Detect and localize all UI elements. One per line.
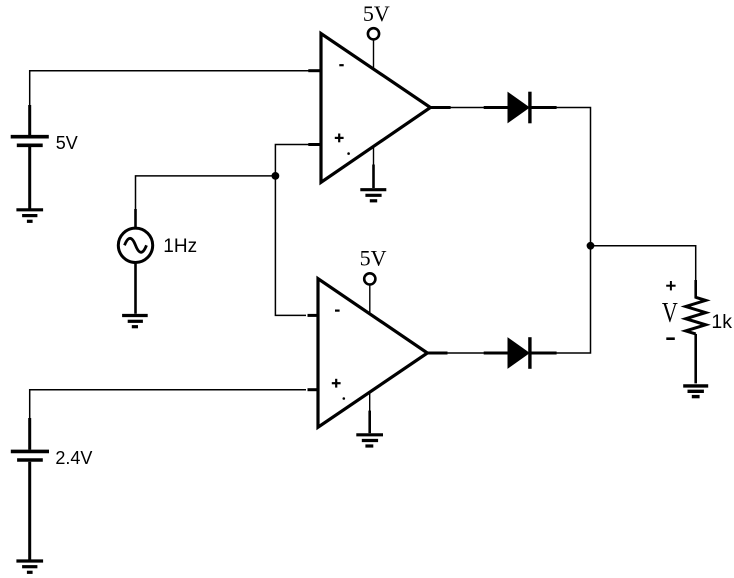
U1 pin dot (347, 152, 350, 155)
resistor R1 (686, 280, 706, 383)
ground at U1 (360, 190, 386, 201)
U2 inverting input pin stub (308, 314, 319, 317)
svg-text:2.4V: 2.4V (55, 448, 92, 468)
wire node A to resistor R1 (591, 246, 696, 281)
U1 inverting input pin stub (308, 69, 320, 72)
op-amp U2 (318, 279, 427, 428)
U1 non-inverting input pin stub (308, 143, 320, 146)
U2 output pin stub (426, 352, 448, 355)
ground at R1 (683, 386, 708, 397)
U2 plus sign (332, 379, 341, 388)
wire VS to node B (136, 176, 276, 210)
battery V1 (11, 105, 49, 209)
U1 output pin stub (429, 106, 451, 109)
ground at VS (122, 316, 148, 327)
battery V2 (11, 418, 49, 560)
op-amp U1 (321, 34, 430, 183)
wire node B to U2 inverting input (275, 176, 306, 316)
svg-text:5V: 5V (56, 133, 78, 153)
wire battery V1 top to op-amp U1 inverting input (30, 71, 309, 107)
svg-text:V: V (662, 296, 678, 329)
U2 non-inverting input pin stub (308, 388, 319, 391)
svg-text:5V: 5V (363, 1, 390, 26)
wire D2 to node A (556, 246, 591, 354)
U2 minus sign (335, 310, 340, 312)
wire U1 output to diode D1 (450, 107, 485, 109)
node A junction (587, 242, 595, 250)
U1 ground pin (373, 146, 375, 166)
node B junction (272, 172, 280, 180)
U1 minus sign (339, 64, 343, 66)
sine source VS (118, 209, 152, 314)
label V output plus (666, 281, 675, 290)
U1 V+ terminal (368, 28, 379, 39)
svg-text:1Hz: 1Hz (163, 236, 197, 257)
svg-text:1k: 1k (711, 311, 732, 333)
wire node B to U1 non-inverting input (275, 145, 309, 176)
wire battery V2 to U2 non-inverting input (30, 390, 306, 420)
diode D1 (484, 92, 557, 124)
diode D2 (484, 337, 557, 369)
ground at U2 (356, 435, 383, 446)
U2 V+ terminal (364, 273, 375, 284)
U1 plus sign (335, 134, 344, 143)
svg-text:5V: 5V (360, 246, 387, 271)
U2 ground pin (369, 392, 371, 412)
U2 pin dot (343, 397, 346, 400)
label V output minus (666, 337, 675, 340)
wire D1 to node A (556, 108, 591, 247)
ground at battery V2 (16, 561, 43, 572)
wire U2 output to diode D2 (447, 352, 485, 354)
ground at battery V1 (16, 210, 43, 222)
